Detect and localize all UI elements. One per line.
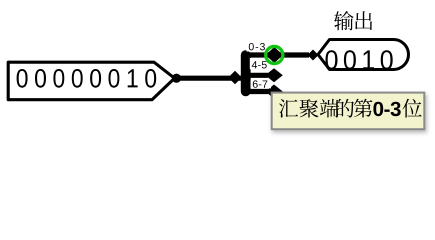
green selection ring on branch 0-3 node xyxy=(266,46,283,63)
arrow diamond into output capsule xyxy=(308,50,319,61)
arrow diamond into splitter trunk xyxy=(228,71,242,84)
output capsule shape xyxy=(318,40,409,70)
label 6-7 xyxy=(253,80,267,87)
wire from source register to splitter xyxy=(176,76,243,81)
label 输出 (output) xyxy=(334,11,372,30)
output pin dot of source register xyxy=(172,74,181,83)
splitter trunk bar xyxy=(241,50,251,96)
white backplate of label 4-5 xyxy=(250,58,269,69)
source register box xyxy=(8,62,174,99)
diamond node on branch 4-5 xyxy=(265,68,283,82)
tooltip text 汇聚端的第0-3位 xyxy=(279,99,422,118)
label 0-3 xyxy=(249,43,265,50)
branch wire bits 0-3 xyxy=(245,52,309,57)
white backplate of label 0-3 xyxy=(247,41,268,52)
diamond node on branch 6-7 xyxy=(265,85,283,99)
white backplate of label 6-7 xyxy=(251,80,271,88)
branch wire bits 6-7 xyxy=(245,89,268,94)
output capsule value 0010 xyxy=(326,50,393,69)
branch wire bits 4-5 xyxy=(245,73,268,78)
tooltip box xyxy=(272,93,425,130)
source register value 00000010 xyxy=(17,69,157,88)
label 4-5 xyxy=(252,61,267,68)
diamond node on branch 0-3 (selected) xyxy=(266,47,284,63)
